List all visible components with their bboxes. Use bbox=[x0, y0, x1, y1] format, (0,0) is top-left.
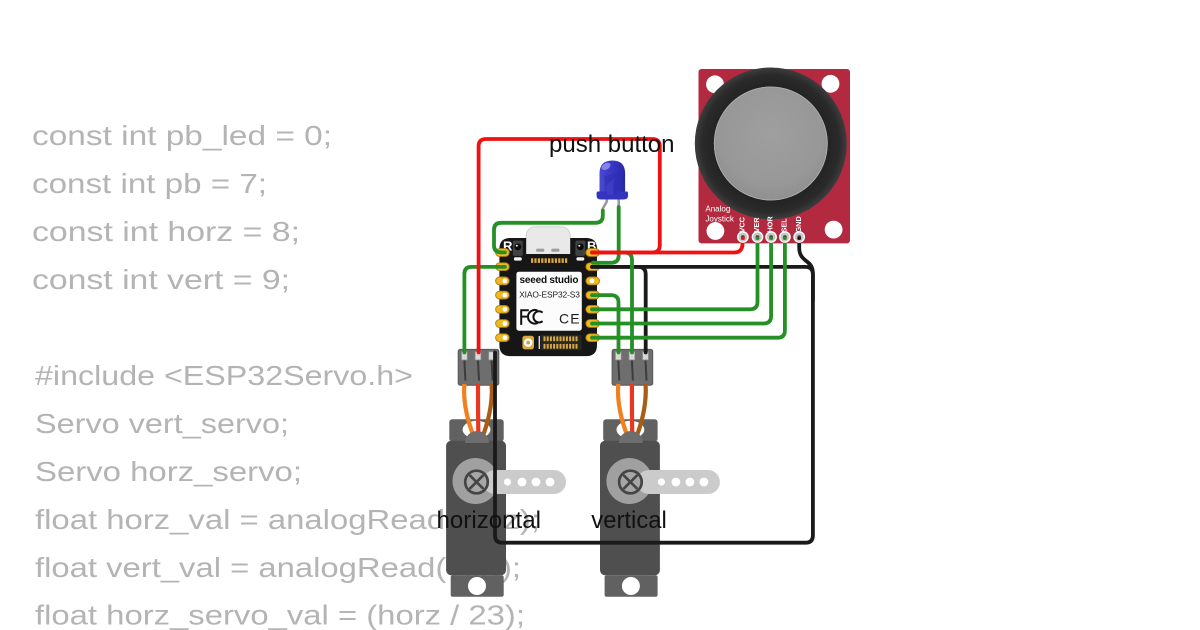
boot button bbox=[575, 241, 585, 256]
svg-text:SEL: SEL bbox=[780, 218, 789, 233]
joystick PCB bbox=[699, 69, 851, 243]
wire green D1 to servo1 signal bbox=[464, 267, 505, 353]
wire green D7 to joystick SEL bbox=[592, 239, 785, 338]
wire green LED anode to D0 bbox=[494, 211, 603, 253]
svg-text:GND: GND bbox=[794, 216, 803, 232]
horn arm bbox=[483, 470, 566, 494]
svg-text:const int pb = 7;: const int pb = 7; bbox=[32, 168, 267, 199]
wire green 5V to servo2 power bbox=[592, 253, 632, 353]
svg-text:VCC: VCC bbox=[738, 216, 747, 232]
wire red 5V loop to servo1 power bbox=[479, 139, 660, 353]
screw symbol bbox=[465, 471, 488, 494]
usb connector bbox=[526, 227, 570, 254]
svg-text:push button: push button bbox=[549, 131, 675, 158]
mounting hole top-right bbox=[822, 75, 840, 93]
servo M1 (horizontal) bbox=[446, 349, 566, 596]
svg-text:Servo horz_servo;: Servo horz_servo; bbox=[35, 456, 302, 487]
FCC logo bbox=[521, 309, 542, 325]
svg-text:vertical: vertical bbox=[591, 507, 667, 534]
horn bbox=[453, 458, 499, 504]
svg-text:VER: VER bbox=[752, 217, 761, 233]
background code text bbox=[32, 120, 540, 630]
wire green D8 to joystick HOR bbox=[592, 239, 771, 324]
bottom flange bbox=[451, 575, 504, 597]
mounting hole top-left bbox=[706, 75, 724, 93]
usb lower part over board bbox=[526, 238, 570, 254]
joystick pins base bbox=[738, 232, 805, 242]
left pins bbox=[496, 249, 510, 342]
led legs bbox=[603, 199, 607, 212]
reset button bbox=[513, 241, 523, 256]
wire black board GND to servo2 GND bbox=[592, 267, 646, 353]
svg-text:CE: CE bbox=[559, 311, 581, 327]
svg-text:const int vert = 9;: const int vert = 9; bbox=[32, 264, 290, 295]
servo M2 (vertical) bbox=[600, 349, 720, 596]
svg-text:XIAO-ESP32-S3: XIAO-ESP32-S3 bbox=[519, 290, 580, 300]
silkscreen bbox=[516, 272, 581, 331]
mounting hole bottom-right bbox=[825, 221, 843, 239]
svg-text:horizontal: horizontal bbox=[437, 507, 542, 534]
XIAO-ESP32-S3 board U1 bbox=[496, 227, 600, 356]
wire green D10 to servo2 signal bbox=[592, 295, 619, 352]
antenna connector bbox=[522, 336, 534, 350]
right pins bbox=[586, 249, 600, 342]
mounting hole bottom-left bbox=[707, 222, 725, 240]
connector housing bbox=[612, 349, 653, 385]
servo body bbox=[446, 441, 506, 575]
svg-text:Analog: Analog bbox=[705, 205, 730, 214]
wire red 5V to joystick VCC bbox=[592, 239, 743, 253]
joystick module U2 bbox=[695, 68, 850, 244]
wire black board GND to servo1 GND bbox=[495, 267, 813, 543]
wire LED cathode to GND (green, drawn first so black overlaps) bbox=[593, 207, 619, 263]
svg-text:Joystick: Joystick bbox=[705, 215, 734, 224]
wire black joystick GND down bbox=[799, 239, 813, 301]
servo cable bbox=[464, 384, 476, 443]
svg-text:float horz_servo_val = (horz /: float horz_servo_val = (horz / 23); bbox=[35, 600, 525, 630]
b2b connector bbox=[539, 336, 540, 349]
led body bbox=[600, 161, 626, 192]
svg-text:HOR: HOR bbox=[766, 216, 775, 233]
joystick pin rings overlay bbox=[738, 232, 805, 242]
svg-text:#include <ESP32Servo.h>: #include <ESP32Servo.h> bbox=[35, 360, 413, 391]
svg-text:Servo vert_servo;: Servo vert_servo; bbox=[35, 408, 289, 439]
top flange bbox=[449, 419, 503, 441]
top teeth bbox=[531, 258, 567, 263]
wire green D9 to joystick VER bbox=[592, 239, 758, 310]
joystick knob cap bbox=[714, 87, 827, 200]
LED D1 bbox=[597, 161, 628, 212]
svg-text:const int pb_led = 0;: const int pb_led = 0; bbox=[32, 120, 332, 151]
joystick knob outer ring bbox=[695, 68, 847, 220]
connector housing bbox=[458, 349, 499, 385]
svg-text:const int horz = 8;: const int horz = 8; bbox=[32, 216, 300, 247]
board body bbox=[499, 238, 597, 356]
svg-text:seeed studio: seeed studio bbox=[520, 275, 579, 286]
